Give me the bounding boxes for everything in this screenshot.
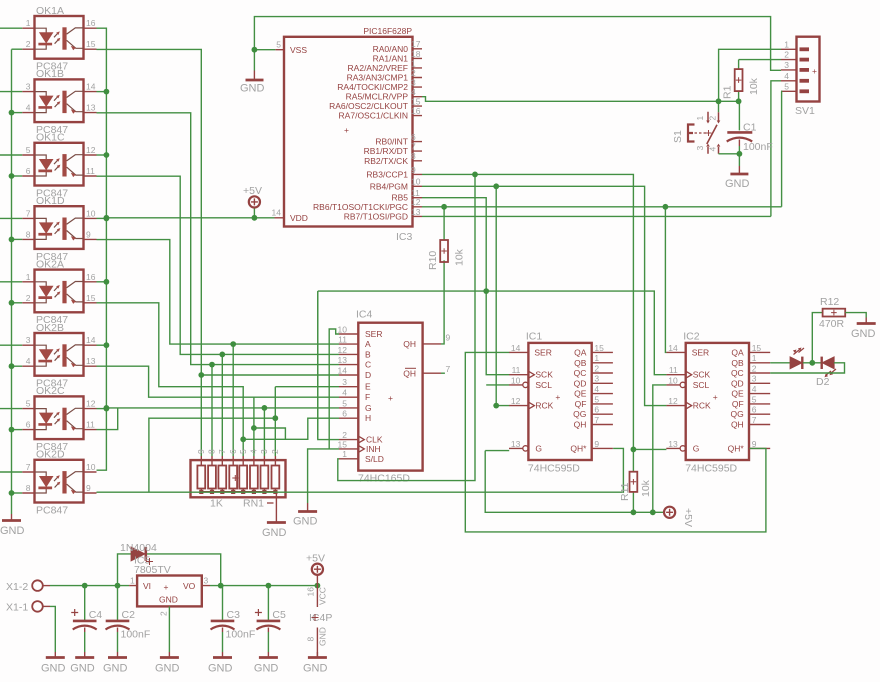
- wire RN1 tap7: [263, 408, 265, 456]
- wire OK2C pin11 tee: [97, 408, 118, 430]
- svg-text:10: 10: [338, 324, 348, 334]
- wire collector row 3: [97, 217, 107, 219]
- capacitor C5: [255, 586, 286, 652]
- wire IC1 QHstar serial loop to OK2D pin9: [97, 448, 624, 492]
- svg-text:OK2C: OK2C: [36, 385, 65, 397]
- svg-text:RB1/RX/DT: RB1/RX/DT: [364, 146, 408, 156]
- svg-text:12: 12: [338, 345, 348, 355]
- svg-text:5: 5: [752, 394, 757, 404]
- svg-text:GND: GND: [0, 525, 25, 537]
- svg-text:E: E: [365, 382, 371, 392]
- svg-text:12: 12: [411, 197, 421, 207]
- svg-text:13: 13: [668, 439, 678, 449]
- wire IC2 QHstar to IC1 SER: [465, 352, 766, 532]
- ground GND C3: [208, 652, 233, 675]
- svg-text:+: +: [344, 125, 349, 135]
- wire IC4 QH to R10: [441, 260, 444, 344]
- svg-text:9: 9: [446, 333, 451, 343]
- svg-text:SV1: SV1: [795, 105, 815, 117]
- svg-text:7: 7: [594, 415, 599, 425]
- svg-text:9: 9: [86, 483, 91, 493]
- svg-text:3: 3: [752, 374, 757, 384]
- capacitor C2: [106, 586, 151, 652]
- svg-text:3: 3: [411, 78, 416, 88]
- wire diode bypass left: [118, 554, 132, 586]
- svg-text:9: 9: [86, 229, 91, 239]
- svg-text:OK2A: OK2A: [36, 258, 64, 270]
- svg-text:15: 15: [594, 343, 604, 353]
- svg-text:100nF: 100nF: [226, 629, 256, 641]
- svg-text:14: 14: [86, 82, 96, 92]
- svg-text:+: +: [388, 393, 393, 403]
- wire diode bypass right: [147, 554, 221, 586]
- resistor R12 470R: [819, 296, 845, 330]
- svg-text:QH: QH: [403, 368, 416, 378]
- svg-text:18: 18: [411, 49, 421, 59]
- wire +5V to IC2 SCL: [653, 385, 667, 512]
- wire cathode row opto 8: [12, 492, 23, 494]
- wire D2 centre to R12: [812, 313, 822, 363]
- wire cathode row opto 5: [12, 302, 23, 304]
- svg-text:VSS: VSS: [290, 45, 307, 55]
- svg-text:7: 7: [446, 364, 451, 374]
- svg-text:QH*: QH*: [728, 443, 745, 453]
- svg-text:RCK: RCK: [535, 401, 553, 411]
- svg-text:14: 14: [338, 365, 348, 375]
- svg-text:OK1B: OK1B: [36, 68, 64, 80]
- power symbol +5V mid: [664, 507, 694, 527]
- svg-text:C: C: [365, 360, 371, 370]
- capacitor C3: [211, 586, 256, 652]
- wire cathode row opto 6: [12, 365, 23, 367]
- svg-text:G: G: [535, 443, 542, 453]
- wire RB4 latch net: [422, 186, 666, 405]
- svg-text:10k: 10k: [454, 248, 466, 266]
- svg-text:2: 2: [26, 293, 31, 303]
- junction dots collector bus: [104, 89, 110, 95]
- svg-text:X1-1: X1-1: [6, 602, 28, 614]
- svg-text:11: 11: [669, 365, 678, 375]
- ground GND at IC4 INH: [293, 503, 318, 528]
- power symbol +5V at IC3: [243, 185, 262, 207]
- wire cathode row opto 2: [12, 112, 23, 114]
- wire LED cathode bus to GND: [11, 49, 13, 514]
- wire OK2A pin15 via RN1 tap5 to IC4 H: [97, 303, 340, 456]
- svg-text:GND: GND: [293, 516, 318, 528]
- svg-text:C4: C4: [89, 609, 103, 621]
- svg-text:4: 4: [752, 384, 757, 394]
- svg-text:SER: SER: [692, 347, 709, 357]
- svg-text:QA: QA: [574, 347, 587, 357]
- ground GND below C1: [725, 166, 750, 190]
- svg-text:OK2D: OK2D: [36, 449, 65, 461]
- wire C1 to ground: [738, 154, 740, 166]
- svg-text:2: 2: [784, 50, 789, 60]
- svg-text:PC847: PC847: [36, 504, 68, 516]
- junction dots cathode bus: [9, 110, 15, 116]
- shift register IC4 74HC165D: [338, 309, 451, 485]
- svg-text:74HC595D: 74HC595D: [685, 463, 737, 475]
- svg-text:7805TV: 7805TV: [134, 564, 171, 576]
- svg-text:5: 5: [342, 398, 347, 408]
- svg-text:QC: QC: [731, 368, 744, 378]
- ground GND C4: [70, 652, 95, 675]
- wire input row to opto pin 1: [0, 281, 22, 283]
- svg-text:IC3: IC3: [396, 231, 413, 243]
- wire RN1 common to ground: [275, 492, 277, 522]
- capacitor C4: [71, 586, 102, 652]
- svg-text:SCK: SCK: [535, 370, 553, 380]
- svg-text:+: +: [555, 392, 560, 402]
- svg-text:SER: SER: [365, 329, 382, 339]
- svg-text:10: 10: [411, 177, 421, 187]
- svg-text:RB7/T1OSI/PGD: RB7/T1OSI/PGD: [344, 211, 408, 221]
- wire OK2D pin9 riser to IC4 E: [149, 387, 339, 493]
- svg-text:C5: C5: [272, 609, 286, 621]
- svg-text:GND: GND: [240, 83, 265, 95]
- wire SV1 pin4 to RB7: [771, 81, 781, 217]
- svg-text:5: 5: [784, 81, 789, 91]
- svg-text:15: 15: [86, 293, 96, 303]
- svg-text:4: 4: [249, 449, 259, 454]
- svg-text:A: A: [365, 339, 371, 349]
- junction dots nets A-D: [230, 341, 236, 347]
- svg-text:3: 3: [594, 374, 599, 384]
- svg-text:10: 10: [511, 375, 521, 385]
- svg-text:4: 4: [26, 356, 31, 366]
- svg-text:5: 5: [276, 39, 281, 49]
- svg-text:3: 3: [204, 576, 209, 586]
- optocoupler OK2B PC847: [22, 322, 96, 390]
- svg-text:5: 5: [26, 399, 31, 409]
- svg-text:+5V: +5V: [682, 508, 694, 527]
- wire RB6 to IC2 SER: [665, 207, 666, 353]
- wire VDD +5V net: [106, 208, 274, 218]
- svg-text:13: 13: [338, 355, 348, 365]
- svg-text:6: 6: [228, 449, 238, 454]
- svg-text:13: 13: [411, 207, 421, 217]
- svg-text:RA7/OSC1/CLKIN: RA7/OSC1/CLKIN: [339, 111, 408, 121]
- svg-text:1: 1: [26, 272, 31, 282]
- svg-text:INH: INH: [366, 444, 381, 454]
- svg-text:QD: QD: [574, 378, 587, 388]
- svg-text:H: H: [365, 413, 371, 423]
- wire net B to IC4: [222, 353, 339, 355]
- svg-text:2: 2: [26, 39, 31, 49]
- optocoupler OK2C PC847: [22, 385, 96, 453]
- resistor network RN1 1K: [191, 449, 286, 510]
- svg-text:12: 12: [668, 396, 678, 406]
- svg-text:GND: GND: [318, 627, 328, 646]
- svg-text:3: 3: [695, 146, 705, 151]
- svg-text:+: +: [164, 582, 169, 592]
- wire OK1A pin15 to IC4 D: [97, 49, 202, 375]
- wire input row to opto pin 5: [0, 154, 22, 156]
- svg-text:12: 12: [86, 399, 96, 409]
- wire cathode row opto 4: [12, 238, 23, 240]
- svg-text:10: 10: [86, 208, 96, 218]
- svg-text:QH: QH: [403, 339, 416, 349]
- svg-text:D: D: [365, 370, 371, 380]
- wire net C to IC4: [212, 364, 339, 366]
- svg-text:5: 5: [238, 449, 248, 454]
- svg-text:15: 15: [411, 97, 421, 107]
- svg-text:7: 7: [26, 462, 31, 472]
- svg-text:3: 3: [26, 82, 31, 92]
- led D2 left half: [790, 348, 804, 370]
- svg-text:1N4004: 1N4004: [120, 542, 157, 554]
- microcontroller IC3 PIC16F628P: [272, 26, 422, 243]
- wire collector row 5: [97, 344, 107, 346]
- resistor R10 10k: [427, 207, 466, 270]
- svg-text:R10: R10: [427, 251, 439, 270]
- wire input row to opto pin 5: [0, 408, 22, 410]
- svg-text:QF: QF: [575, 399, 587, 409]
- led D2 right half: [816, 357, 836, 388]
- svg-text:RA3/AN3/CMP1: RA3/AN3/CMP1: [347, 73, 409, 83]
- svg-text:RB3/CCP1: RB3/CCP1: [366, 169, 408, 179]
- wire shift clock to IC4 CLK: [318, 291, 339, 440]
- svg-text:+: +: [713, 392, 718, 402]
- svg-text:7: 7: [411, 142, 416, 152]
- svg-text:GND: GND: [70, 663, 95, 675]
- svg-text:GND: GND: [103, 663, 128, 675]
- svg-text:2: 2: [594, 363, 599, 373]
- svg-text:+: +: [812, 66, 817, 76]
- svg-text:IC4: IC4: [356, 309, 373, 321]
- svg-text:IC1: IC1: [526, 331, 543, 343]
- svg-text:12: 12: [86, 145, 96, 155]
- svg-text:RB4/PGM: RB4/PGM: [370, 181, 408, 191]
- svg-text:QA: QA: [731, 347, 744, 357]
- optocoupler OK1B PC847: [22, 68, 96, 136]
- svg-text:1: 1: [695, 116, 705, 121]
- svg-text:8: 8: [26, 229, 31, 239]
- svg-text:4: 4: [784, 71, 789, 81]
- ground GND below optocouplers: [0, 514, 25, 537]
- svg-text:PIC16F628P: PIC16F628P: [363, 26, 412, 36]
- svg-text:QH: QH: [574, 420, 587, 430]
- ground GND X1-1: [41, 652, 66, 675]
- ground GND at IC3 VSS: [240, 71, 265, 95]
- svg-text:QG: QG: [573, 409, 586, 419]
- power pins IC4P: [306, 586, 333, 657]
- wire S1 pin4 to C1: [719, 153, 740, 155]
- svg-text:4: 4: [707, 147, 717, 152]
- svg-text:GND: GND: [262, 527, 287, 539]
- svg-text:SCL: SCL: [535, 380, 552, 390]
- svg-text:6: 6: [411, 132, 416, 142]
- svg-text:VI: VI: [143, 581, 151, 591]
- svg-text:QE: QE: [731, 389, 744, 399]
- svg-text:R11: R11: [619, 482, 631, 501]
- optocoupler OK1D PC847: [22, 195, 96, 263]
- wire input row to opto pin 7: [0, 217, 22, 219]
- svg-text:X1-2: X1-2: [6, 581, 28, 593]
- svg-text:1: 1: [411, 58, 416, 68]
- svg-text:3: 3: [342, 377, 347, 387]
- wire jog lower F: [254, 428, 286, 439]
- wire MCLR net RA5: [422, 91, 739, 112]
- wire OK1B pin13 to IC4 C: [97, 113, 213, 365]
- svg-text:RN1: RN1: [243, 498, 264, 510]
- svg-text:1: 1: [752, 353, 757, 363]
- optocoupler OK1A PC847: [22, 5, 96, 73]
- svg-text:RB6/T1OSO/T1CKI/PGC: RB6/T1OSO/T1CKI/PGC: [313, 202, 408, 212]
- svg-text:16: 16: [306, 587, 316, 597]
- capacitor C1 100nF: [727, 101, 773, 154]
- wire RB3 output-enable net: [422, 174, 666, 449]
- wire OK2B pin13 to IC4 F: [97, 366, 340, 397]
- wire RN1 tap6: [253, 397, 255, 456]
- svg-text:2: 2: [752, 363, 757, 373]
- svg-text:470R: 470R: [819, 318, 845, 330]
- svg-text:14: 14: [511, 343, 521, 353]
- svg-text:QC: QC: [574, 368, 587, 378]
- wire collector row 6: [97, 408, 107, 410]
- svg-text:3: 3: [784, 60, 789, 70]
- svg-text:G: G: [693, 443, 700, 453]
- wire input row to opto pin 1: [0, 27, 22, 29]
- wire cathode row opto 3: [12, 175, 23, 177]
- wire net D to IC4: [201, 374, 339, 376]
- svg-text:2: 2: [159, 611, 169, 616]
- optocoupler OK2D PC847: [22, 449, 96, 517]
- wire cathode row opto 7: [12, 429, 23, 431]
- connector X1-1: [6, 601, 50, 613]
- svg-text:1: 1: [784, 39, 789, 49]
- svg-text:VDD: VDD: [290, 213, 308, 223]
- svg-text:OK1D: OK1D: [36, 195, 65, 207]
- wire input row to opto pin 3: [0, 344, 22, 346]
- svg-text:7: 7: [26, 208, 31, 218]
- svg-text:D2: D2: [816, 376, 830, 388]
- svg-text:14: 14: [668, 343, 678, 353]
- wire SV1 pin1 to MCLR: [719, 49, 781, 101]
- svg-text:QD: QD: [731, 378, 744, 388]
- optocoupler OK2A PC847: [22, 258, 96, 326]
- svg-text:RB2/TX/CK: RB2/TX/CK: [364, 156, 408, 166]
- connector X1-2: [6, 580, 50, 593]
- svg-text:6: 6: [752, 405, 757, 415]
- svg-text:3: 3: [259, 449, 269, 454]
- svg-text:17: 17: [411, 39, 421, 49]
- wire +5V rail: [485, 451, 663, 513]
- svg-text:14: 14: [272, 207, 282, 217]
- shift register IC1 74HC595D: [509, 331, 613, 475]
- svg-text:9: 9: [594, 439, 599, 449]
- svg-text:GND: GND: [208, 663, 233, 675]
- wire SV1 pin2 to R1: [739, 59, 781, 61]
- wire IC4 QHbar stub: [441, 372, 445, 374]
- svg-text:QG: QG: [730, 409, 743, 419]
- svg-text:11: 11: [86, 166, 95, 176]
- svg-text:1: 1: [342, 449, 347, 459]
- svg-text:10: 10: [86, 462, 96, 472]
- svg-text:S1: S1: [672, 130, 684, 143]
- wire S-LD to RB3 riser: [338, 174, 475, 480]
- wire IC2 QB to D2: [770, 362, 790, 364]
- wire regulator pin2 to ground: [168, 606, 170, 652]
- svg-text:RA4/TOCKI/CMP2: RA4/TOCKI/CMP2: [337, 82, 408, 92]
- svg-text:11: 11: [86, 420, 95, 430]
- svg-text:100nF: 100nF: [121, 629, 151, 641]
- diode D1 1N4004: [120, 542, 157, 561]
- wire input rail X1-2 to regulator: [50, 585, 129, 587]
- wire cathode row opto 1: [12, 48, 23, 50]
- svg-text:10k: 10k: [748, 77, 760, 95]
- svg-text:15: 15: [338, 439, 348, 449]
- wire collector row 1: [97, 91, 107, 93]
- svg-text:7: 7: [217, 449, 227, 454]
- svg-text:OK1C: OK1C: [36, 132, 65, 144]
- svg-text:GND: GND: [41, 663, 66, 675]
- svg-text:QH: QH: [731, 420, 744, 430]
- wire RB7 PGD net: [422, 215, 771, 217]
- svg-text:C1: C1: [743, 122, 757, 134]
- ground GND C5: [254, 652, 279, 675]
- svg-text:13: 13: [86, 356, 96, 366]
- svg-text:QH*: QH*: [570, 443, 587, 453]
- svg-text:QF: QF: [732, 399, 744, 409]
- svg-text:3: 3: [26, 335, 31, 345]
- svg-text:C2: C2: [122, 609, 136, 621]
- svg-text:10: 10: [668, 375, 678, 385]
- wire OK1C pin11 to IC4 B: [97, 176, 223, 354]
- svg-text:9: 9: [752, 439, 757, 449]
- wire collector bus +5V: [97, 28, 107, 470]
- svg-text:11: 11: [338, 335, 347, 345]
- svg-text:B: B: [365, 349, 371, 359]
- svg-text:SER: SER: [534, 347, 551, 357]
- svg-text:GND: GND: [851, 328, 876, 340]
- svg-text:R1: R1: [722, 85, 734, 99]
- svg-text:GND: GND: [303, 663, 328, 675]
- wire output rail VO: [210, 585, 317, 587]
- svg-text:RA0/AN0: RA0/AN0: [373, 44, 409, 54]
- svg-text:74HC165D: 74HC165D: [358, 473, 410, 485]
- svg-text:4: 4: [26, 103, 31, 113]
- svg-text:S/LD: S/LD: [365, 454, 384, 464]
- svg-text:RA2/AN2/VREF: RA2/AN2/VREF: [348, 63, 408, 73]
- svg-text:10k: 10k: [640, 479, 652, 497]
- svg-text:5: 5: [26, 145, 31, 155]
- svg-text:8: 8: [411, 151, 416, 161]
- wire RB6 PGC net: [422, 206, 782, 208]
- svg-text:6: 6: [26, 420, 31, 430]
- svg-text:8: 8: [207, 449, 217, 454]
- wire VSS ground net: [254, 17, 781, 71]
- svg-text:9: 9: [411, 165, 416, 175]
- svg-text:GND: GND: [254, 663, 279, 675]
- svg-text:15: 15: [752, 343, 762, 353]
- svg-text:VO: VO: [183, 581, 196, 591]
- svg-text:9: 9: [196, 449, 206, 454]
- optocoupler OK1C PC847: [22, 132, 96, 200]
- wire RB5 clock net: [422, 198, 509, 375]
- svg-text:RCK: RCK: [693, 401, 711, 411]
- svg-text:RA6/OSC2/CLKOUT: RA6/OSC2/CLKOUT: [329, 101, 408, 111]
- svg-text:F: F: [365, 392, 370, 402]
- resistor R11 10k: [619, 449, 652, 512]
- svg-text:1: 1: [594, 353, 599, 363]
- svg-text:8: 8: [306, 637, 316, 642]
- svg-text:11: 11: [512, 365, 521, 375]
- shift register IC2 74HC595D: [666, 331, 770, 475]
- svg-text:IC2: IC2: [683, 331, 700, 343]
- wire SV1 pin5 to RB6: [780, 91, 783, 207]
- wire RB5 branch to IC2 SCK and IC4 CLK: [318, 291, 667, 439]
